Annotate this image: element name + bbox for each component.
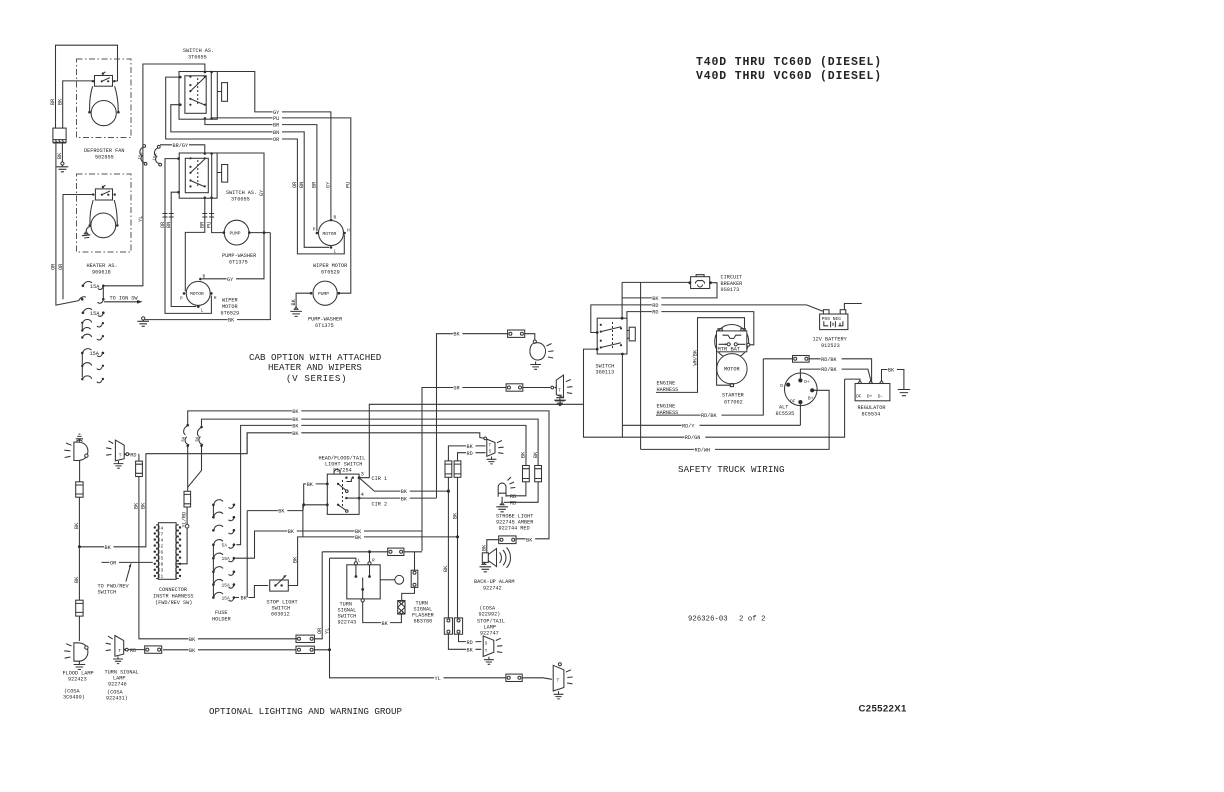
svg-text:OR: OR bbox=[51, 264, 57, 270]
svg-text:15A: 15A bbox=[138, 152, 144, 161]
wire ground-net to RD/GN bbox=[584, 349, 845, 437]
wire CIR2 BK bbox=[359, 497, 436, 499]
svg-text:DF: DF bbox=[856, 393, 862, 399]
starter motor bbox=[717, 352, 748, 406]
connector instr harness bbox=[158, 523, 176, 580]
svg-text:BK: BK bbox=[467, 648, 474, 654]
svg-text:YL: YL bbox=[138, 216, 144, 222]
wire r5 to BK line A bbox=[235, 531, 422, 558]
connector pair on BR/GY line bbox=[153, 145, 162, 166]
wire alt DF bbox=[799, 402, 801, 425]
dashed enclosure defroster fan bbox=[77, 59, 132, 138]
wire flasher bottom to switch bbox=[363, 602, 402, 623]
switch defroster bbox=[92, 72, 116, 86]
svg-text:BK: BK bbox=[241, 596, 248, 602]
motor heater bbox=[91, 213, 116, 238]
fuse holder flood lower bbox=[76, 600, 83, 616]
svg-text:YL: YL bbox=[435, 676, 441, 682]
svg-text:BK: BK bbox=[57, 98, 63, 105]
svg-text:RD/Y: RD/Y bbox=[682, 423, 695, 429]
svg-text:D+: D+ bbox=[804, 379, 810, 385]
back up alarm connector bbox=[499, 536, 516, 544]
back up alarm speaker bbox=[480, 548, 511, 572]
svg-text:OR: OR bbox=[160, 222, 166, 228]
svg-text:T: T bbox=[558, 388, 561, 394]
fuse holder rect YL/RD bbox=[184, 491, 191, 507]
svg-text:SAFETY TRUCK WIRING: SAFETY TRUCK WIRING bbox=[678, 464, 785, 475]
svg-text:B: B bbox=[203, 274, 206, 280]
svg-text:OR: OR bbox=[58, 264, 64, 270]
wire RD/BK alt D+ to regulator bbox=[800, 369, 871, 382]
svg-text:OR: OR bbox=[110, 560, 116, 566]
wire alarm left bbox=[487, 540, 499, 553]
svg-text:RD/BK: RD/BK bbox=[821, 367, 837, 373]
svg-text:DF: DF bbox=[790, 398, 796, 404]
svg-text:H: H bbox=[214, 295, 217, 301]
svg-text:ENGINE: ENGINE bbox=[657, 381, 676, 387]
svg-text:BK: BK bbox=[533, 451, 539, 458]
rotated labels OR BN BR PU bbox=[160, 222, 213, 228]
switch heater bbox=[92, 185, 116, 200]
fuse row2 TO IGN SW bbox=[79, 296, 143, 304]
connector pair on YL line bbox=[138, 145, 147, 166]
fuse holder optional bbox=[212, 500, 235, 602]
svg-text:PU: PU bbox=[346, 182, 352, 188]
wire GY2 riser bbox=[202, 153, 264, 279]
wire BR to wiper motor P bbox=[185, 198, 205, 291]
svg-text:PUMP: PUMP bbox=[318, 291, 329, 297]
svg-text:(V SERIES): (V SERIES) bbox=[286, 373, 347, 384]
svg-text:POS NEG: POS NEG bbox=[822, 316, 842, 322]
svg-text:922746: 922746 bbox=[108, 682, 127, 688]
connector rect on R line bbox=[388, 548, 404, 555]
wire pump right to BK riser bbox=[249, 232, 270, 234]
svg-text:1: 1 bbox=[161, 574, 164, 580]
wire RD row to OR/YL rects bbox=[163, 649, 296, 651]
svg-text:4: 4 bbox=[161, 525, 164, 531]
svg-text:6: 6 bbox=[161, 550, 164, 556]
junction flood BK bbox=[78, 545, 81, 548]
fuse holder flood upper bbox=[76, 482, 83, 497]
svg-text:PU: PU bbox=[206, 222, 212, 228]
svg-text:BK: BK bbox=[521, 451, 527, 458]
svg-text:BK: BK bbox=[307, 482, 314, 488]
svg-text:BK: BK bbox=[888, 368, 895, 374]
label RD/Y bbox=[682, 422, 700, 428]
svg-text:BK: BK bbox=[288, 529, 295, 535]
svg-text:BREAKER: BREAKER bbox=[721, 281, 743, 287]
upper T/S lamp bbox=[484, 437, 504, 464]
svg-text:BK: BK bbox=[74, 522, 80, 529]
wire BR from switch1 bbox=[205, 118, 317, 231]
svg-text:WIPER MOTOR: WIPER MOTOR bbox=[313, 263, 347, 269]
svg-text:GY: GY bbox=[259, 189, 265, 196]
svg-text:OR: OR bbox=[317, 628, 323, 634]
svg-text:922747: 922747 bbox=[480, 631, 499, 637]
svg-text:BK: BK bbox=[228, 318, 235, 324]
svg-text:RD: RD bbox=[652, 310, 658, 316]
svg-text:REGULATOR: REGULATOR bbox=[858, 405, 886, 411]
svg-text:STARTER: STARTER bbox=[722, 393, 744, 399]
wire breaker left / RD-Y riser bbox=[622, 282, 690, 449]
svg-text:BK: BK bbox=[134, 502, 140, 509]
svg-text:5A: 5A bbox=[222, 543, 228, 549]
flood lamp front upper bbox=[64, 434, 88, 460]
inline connector ticks bbox=[163, 214, 215, 218]
alternator bbox=[776, 373, 818, 417]
label RD/GN bbox=[684, 434, 705, 440]
connector block left bbox=[53, 128, 66, 143]
svg-text:6T6529: 6T6529 bbox=[321, 270, 340, 276]
wire BK defroster switch feed bbox=[63, 81, 93, 128]
svg-text:SWITCH: SWITCH bbox=[98, 590, 117, 596]
svg-text:3: 3 bbox=[161, 568, 164, 574]
svg-text:BR: BR bbox=[273, 123, 279, 129]
svg-text:T: T bbox=[489, 444, 492, 448]
svg-text:BK: BK bbox=[443, 565, 449, 572]
svg-text:BK: BK bbox=[482, 544, 488, 551]
wire CIR1 BK bbox=[359, 478, 448, 491]
svg-text:PUMP: PUMP bbox=[230, 230, 241, 236]
wire turn lamp to fuse bbox=[129, 454, 139, 461]
svg-text:PUMP-WASHER: PUMP-WASHER bbox=[308, 317, 342, 323]
circuit breaker bbox=[688, 275, 742, 293]
regulator bbox=[855, 381, 890, 418]
svg-text:603012: 603012 bbox=[271, 612, 290, 618]
rotated labels on risers bbox=[292, 181, 351, 188]
svg-text:9S0173: 9S0173 bbox=[721, 287, 740, 293]
wire BK from floods to riser bbox=[79, 433, 247, 547]
svg-text:BK: BK bbox=[292, 431, 299, 437]
svg-text:BK: BK bbox=[292, 417, 299, 423]
svg-text:PUMP-WASHER: PUMP-WASHER bbox=[222, 253, 256, 259]
wire OR heater feed vertical bbox=[63, 195, 93, 300]
svg-text:RD/GN: RD/GN bbox=[685, 435, 701, 441]
svg-text:BK: BK bbox=[292, 423, 299, 429]
svg-text:PU: PU bbox=[273, 116, 279, 122]
wire PU to pump left bbox=[212, 198, 224, 232]
ground stub heater motor bbox=[82, 227, 90, 238]
svg-text:D-: D- bbox=[878, 393, 883, 399]
svg-text:L: L bbox=[334, 249, 337, 255]
svg-text:WH/BK: WH/BK bbox=[692, 349, 698, 365]
switch as 3T6655 upper bbox=[179, 48, 228, 120]
connector rect RD/BK bbox=[793, 356, 810, 363]
bus line4 BK bbox=[247, 433, 484, 454]
wire lamp S to right fuse bbox=[458, 453, 486, 461]
fuse row1 15A bbox=[82, 282, 105, 290]
svg-text:MOTOR: MOTOR bbox=[190, 291, 204, 297]
svg-text:BR: BR bbox=[200, 222, 206, 228]
connector rects stop tail bbox=[444, 618, 462, 634]
bus labels BK bbox=[292, 408, 302, 437]
svg-text:3: 3 bbox=[361, 472, 364, 478]
wire OR to connector bbox=[102, 561, 153, 563]
wire BK breaker right loop bbox=[622, 282, 717, 318]
ground symbol mid bbox=[559, 403, 562, 406]
turn signal flasher bbox=[398, 601, 434, 625]
svg-text:3C6499): 3C6499) bbox=[63, 695, 85, 701]
svg-text:T: T bbox=[485, 650, 488, 654]
wire lamp T to left fuse bbox=[448, 446, 485, 461]
wire OR to wiper motor H bbox=[165, 159, 211, 314]
svg-text:7: 7 bbox=[161, 531, 164, 537]
svg-text:BR: BR bbox=[312, 182, 318, 188]
wire BR/GY jumper bbox=[160, 145, 205, 153]
wire rear turn lamp GR bbox=[422, 388, 550, 552]
bus line1 BK bbox=[188, 411, 549, 539]
wire BK pump right to ground bbox=[296, 293, 311, 307]
wire RD1 to battery bbox=[591, 305, 823, 333]
wire OR riser bbox=[314, 552, 322, 639]
wire YL/RD to connector bbox=[186, 507, 188, 524]
svg-text:OR: OR bbox=[273, 137, 279, 143]
turn lamp rear bbox=[551, 375, 573, 405]
svg-text:RD: RD bbox=[467, 451, 473, 457]
svg-text:RD/WH: RD/WH bbox=[695, 447, 711, 453]
wire regulator D- to ground bbox=[882, 370, 904, 390]
svg-text:RD: RD bbox=[510, 500, 516, 506]
connector rects rear rows bbox=[296, 635, 314, 653]
svg-text:CONNECTOR: CONNECTOR bbox=[159, 587, 187, 593]
svg-text:8C5534: 8C5534 bbox=[862, 412, 881, 418]
wire BK mid riser bbox=[247, 505, 304, 598]
svg-text:BK: BK bbox=[57, 152, 63, 159]
wire flood lamps vertical bbox=[78, 461, 80, 642]
svg-text:T: T bbox=[557, 677, 560, 683]
svg-text:TO IGN SW: TO IGN SW bbox=[110, 296, 139, 302]
switch as 3T6655 lower bbox=[177, 152, 257, 202]
svg-text:FUSE: FUSE bbox=[215, 610, 227, 616]
svg-text:502855: 502855 bbox=[95, 155, 114, 161]
svg-text:BK: BK bbox=[452, 512, 458, 519]
strobe fuse right bbox=[532, 451, 542, 502]
svg-text:BK: BK bbox=[652, 296, 659, 302]
wire regulator DF to battery riser bbox=[845, 379, 860, 380]
svg-text:BACK-UP ALARM: BACK-UP ALARM bbox=[474, 579, 514, 585]
svg-text:ALT: ALT bbox=[779, 405, 788, 411]
svg-text:6T6529: 6T6529 bbox=[221, 311, 240, 317]
svg-text:BK: BK bbox=[189, 648, 196, 654]
connector pins and digits bbox=[154, 525, 182, 580]
svg-text:6T7002: 6T7002 bbox=[724, 400, 743, 406]
head flood tail switch feed bbox=[302, 503, 305, 506]
svg-text:909618: 909618 bbox=[92, 270, 111, 276]
svg-text:8: 8 bbox=[161, 562, 164, 568]
svg-text:S: S bbox=[485, 642, 488, 646]
svg-text:B: B bbox=[334, 215, 337, 221]
svg-text:922423: 922423 bbox=[68, 677, 87, 683]
svg-text:3T6655: 3T6655 bbox=[231, 197, 250, 203]
svg-text:T40D THRU TC60D (DIESEL): T40D THRU TC60D (DIESEL) bbox=[696, 56, 882, 69]
svg-text:L: L bbox=[201, 308, 204, 314]
connector row5 bbox=[81, 334, 92, 339]
svg-text:V40D THRU VC60D (DIESEL): V40D THRU VC60D (DIESEL) bbox=[696, 70, 882, 83]
svg-text:RD/BK: RD/BK bbox=[701, 413, 717, 419]
wire BR feed defroster top loop bbox=[56, 45, 118, 128]
svg-text:BK: BK bbox=[453, 332, 460, 338]
svg-text:MTR BAT: MTR BAT bbox=[718, 347, 741, 353]
svg-text:926326-03: 926326-03 bbox=[688, 616, 728, 624]
fuse 5A hook on bus2 drop bbox=[196, 426, 204, 447]
svg-text:BK: BK bbox=[189, 637, 196, 643]
svg-text:CIR 2: CIR 2 bbox=[372, 501, 388, 507]
svg-text:DEFROSTER FAN: DEFROSTER FAN bbox=[84, 148, 124, 154]
svg-text:T: T bbox=[119, 453, 122, 459]
bus line2 BK bbox=[188, 419, 538, 487]
motor heater body bbox=[90, 200, 117, 224]
svg-text:C25522X1: C25522X1 bbox=[859, 704, 907, 715]
strobe light bbox=[496, 477, 533, 532]
svg-text:6T1375: 6T1375 bbox=[315, 323, 334, 329]
wire stop switch right to BK line B bbox=[288, 537, 457, 586]
wire BK turn lamp down to rear row bbox=[139, 477, 300, 639]
svg-text:922431): 922431) bbox=[106, 696, 128, 702]
svg-text:WIPER: WIPER bbox=[222, 298, 238, 304]
svg-text:912523: 912523 bbox=[821, 343, 840, 349]
switch 3G0113 bbox=[596, 317, 636, 376]
svg-text:BK: BK bbox=[278, 509, 285, 515]
svg-text:D+: D+ bbox=[867, 393, 873, 399]
connector rect front turn bbox=[145, 646, 162, 653]
flood lamp rear bbox=[530, 340, 554, 369]
svg-text:T: T bbox=[118, 648, 121, 654]
relay MTR BAT bbox=[717, 329, 750, 353]
stop light switch bbox=[267, 575, 298, 618]
wire RD/BK to regulator D+ bbox=[763, 359, 871, 382]
pump washer right bbox=[313, 281, 337, 305]
svg-text:BK: BK bbox=[292, 409, 299, 415]
svg-text:GR: GR bbox=[453, 386, 459, 392]
svg-text:HOLDER: HOLDER bbox=[212, 617, 231, 623]
svg-text:RD: RD bbox=[130, 648, 136, 654]
svg-text:L: L bbox=[358, 558, 361, 564]
svg-text:H: H bbox=[347, 228, 350, 234]
svg-text:15A: 15A bbox=[153, 153, 159, 162]
svg-text:SWITCH AS.: SWITCH AS. bbox=[226, 190, 257, 196]
wire r8 to stop light switch bbox=[235, 586, 268, 598]
YL connector rect right bbox=[506, 674, 522, 681]
svg-text:6T1375: 6T1375 bbox=[229, 260, 248, 266]
stop tail lamp mid bbox=[483, 636, 502, 664]
svg-text:SWITCH AS.: SWITCH AS. bbox=[183, 48, 214, 54]
svg-text:3G0113: 3G0113 bbox=[596, 370, 615, 376]
svg-text:B+: B+ bbox=[808, 395, 814, 401]
svg-text:BK: BK bbox=[292, 556, 298, 563]
connector rect rear turn bbox=[506, 384, 523, 391]
wire BN from switch1 bbox=[171, 105, 329, 248]
wire YL riser and YL line bbox=[314, 558, 506, 678]
svg-text:922744 RED: 922744 RED bbox=[499, 526, 530, 532]
wire BK to ground bbox=[61, 143, 63, 162]
stop tail fuse left bbox=[445, 461, 452, 477]
strobe fuse left bbox=[521, 451, 530, 496]
fuse holder turn lamp bbox=[136, 461, 143, 476]
svg-text:922742: 922742 bbox=[483, 586, 502, 592]
motor defroster fan body bbox=[90, 86, 119, 111]
connector row8 bbox=[81, 376, 104, 383]
dashed enclosure heater bbox=[77, 174, 132, 252]
wire RD2 to starter solenoid bbox=[627, 312, 754, 345]
wires below stop tail fuses bbox=[448, 477, 457, 618]
connector vertical rect flasher bbox=[411, 570, 418, 587]
svg-text:RD/BK: RD/BK bbox=[821, 357, 837, 363]
svg-text:INSTR HARNESS: INSTR HARNESS bbox=[153, 594, 193, 600]
turn signal lamp front upper bbox=[106, 440, 128, 468]
wire OR from switch1 bbox=[166, 77, 345, 254]
svg-text:2 of 2: 2 of 2 bbox=[739, 616, 765, 624]
svg-text:OR: OR bbox=[292, 182, 298, 188]
wiper motor right bbox=[319, 221, 344, 246]
svg-text:CIR 1: CIR 1 bbox=[372, 476, 388, 482]
wire PU from switch1 bbox=[212, 118, 351, 293]
svg-text:BK: BK bbox=[141, 502, 147, 509]
svg-text:HEATER AND WIPERS: HEATER AND WIPERS bbox=[268, 362, 362, 373]
flood lamp front lower bbox=[64, 643, 88, 670]
battery bbox=[813, 310, 848, 349]
pump washer left bbox=[224, 220, 249, 245]
wiper motor left bbox=[186, 281, 210, 305]
svg-text:RD: RD bbox=[130, 452, 136, 458]
svg-text:BK: BK bbox=[74, 576, 80, 583]
wire RD/WH switch bottom to ALT B+ bbox=[622, 354, 829, 449]
connector row7 bbox=[81, 363, 104, 378]
svg-text:GY: GY bbox=[227, 277, 234, 283]
svg-text:BK: BK bbox=[355, 535, 362, 541]
svg-text:D-: D- bbox=[780, 383, 785, 389]
wire lamp to connector rect bbox=[128, 649, 145, 651]
svg-text:ENGINE: ENGINE bbox=[657, 404, 676, 410]
svg-text:BR/GY: BR/GY bbox=[173, 143, 189, 149]
wire YL riser from row1 bbox=[103, 64, 205, 299]
svg-text:R: R bbox=[372, 558, 375, 564]
svg-text:8C5535: 8C5535 bbox=[776, 411, 795, 417]
wire BN to wiper motor L bbox=[171, 192, 196, 306]
svg-text:BK: BK bbox=[355, 529, 362, 535]
fuse holder left links bbox=[212, 506, 214, 597]
turn signal switch assembly bbox=[338, 558, 404, 626]
svg-text:4: 4 bbox=[361, 492, 364, 498]
fuse row6 15A bbox=[81, 349, 104, 365]
pointer to fwd/rev bbox=[126, 565, 131, 582]
svg-text:5: 5 bbox=[161, 556, 164, 562]
wire OR long vertical to fuse row2 bbox=[56, 143, 79, 305]
svg-text:917254: 917254 bbox=[333, 468, 352, 474]
svg-text:BK: BK bbox=[382, 621, 389, 627]
svg-text:CIRCUIT: CIRCUIT bbox=[721, 275, 743, 281]
svg-text:(FWD/REV SW): (FWD/REV SW) bbox=[155, 600, 192, 606]
svg-text:GY: GY bbox=[326, 181, 332, 188]
svg-text:BK: BK bbox=[526, 538, 533, 544]
svg-text:HEATER AS.: HEATER AS. bbox=[87, 263, 118, 269]
svg-text:YL/RD: YL/RD bbox=[181, 512, 187, 528]
wire flasher chain bbox=[402, 552, 415, 601]
svg-text:BN: BN bbox=[166, 222, 172, 228]
head flood tail light switch bbox=[319, 456, 366, 515]
wire label underlays bbox=[273, 109, 283, 142]
svg-text:3T6655: 3T6655 bbox=[188, 55, 207, 61]
svg-text:BR: BR bbox=[50, 99, 56, 105]
connector row4 bbox=[81, 319, 104, 339]
wire GY from switch1 bbox=[212, 72, 331, 219]
svg-text:922743: 922743 bbox=[338, 620, 357, 626]
wire R L feeds bbox=[322, 552, 422, 562]
svg-text:BN: BN bbox=[273, 130, 279, 136]
svg-text:2: 2 bbox=[161, 543, 164, 549]
svg-text:BK: BK bbox=[467, 444, 474, 450]
svg-text:YL: YL bbox=[324, 628, 330, 634]
motor defroster fan bbox=[91, 101, 116, 126]
